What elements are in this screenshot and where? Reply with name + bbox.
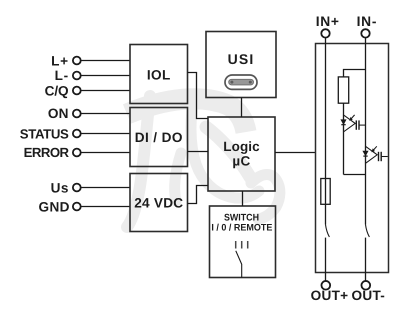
- wire Logic to output stage: [275, 152, 316, 154]
- wire Logic to SWITCH: [242, 191, 244, 206]
- svg-text:GND: GND: [39, 199, 70, 214]
- terminal STATUS: [20, 126, 81, 141]
- switch contact on IN+ line: [326, 225, 330, 237]
- photoMOS coupler 2: [363, 146, 388, 163]
- terminal IN-: [357, 14, 378, 37]
- resistor R1: [338, 77, 348, 103]
- terminal Us: [51, 180, 81, 195]
- svg-text:L+: L+: [51, 54, 69, 69]
- svg-text:IOL: IOL: [147, 68, 171, 83]
- svg-text:ON: ON: [48, 106, 69, 121]
- svg-text:USI: USI: [228, 51, 255, 67]
- terminal C/Q: [45, 84, 81, 99]
- svg-text:STATUS: STATUS: [20, 126, 69, 141]
- photoMOS coupler 1: [341, 115, 365, 132]
- switch position ticks: [236, 241, 248, 249]
- output stage outer box: [316, 44, 389, 273]
- wire STATUS to DI/DO: [81, 133, 130, 135]
- svg-text:I / 0 / REMOTE: I / 0 / REMOTE: [211, 222, 272, 233]
- block USI: [206, 32, 276, 98]
- wire ON to DI/DO: [81, 113, 130, 115]
- svg-text:µC: µC: [232, 154, 250, 169]
- wire IN- down: [365, 38, 367, 225]
- wire IN+ lower: [325, 238, 327, 282]
- terminal IN+: [316, 14, 340, 37]
- terminal L+: [51, 54, 81, 69]
- svg-text:24 VDC: 24 VDC: [134, 196, 183, 211]
- terminal OUT-: [351, 281, 385, 303]
- wire GND to 24VDC: [81, 206, 130, 208]
- svg-text:OUT+: OUT+: [311, 288, 349, 303]
- wire branch from IN- to resistor: [344, 70, 366, 77]
- svg-text:C/Q: C/Q: [45, 84, 69, 99]
- svg-text:Logic: Logic: [223, 139, 260, 154]
- svg-text:Us: Us: [51, 180, 69, 195]
- block 24VDC: [130, 174, 188, 232]
- wire USI to Logic: [241, 98, 243, 118]
- wire Us to 24VDC: [81, 187, 130, 189]
- terminal OUT+: [311, 281, 349, 303]
- block Logic uC: [208, 117, 275, 191]
- wire L+ to IOL: [81, 60, 130, 62]
- wire 24VDC to Logic: [188, 186, 209, 204]
- svg-text:IN+: IN+: [316, 14, 340, 29]
- switch contact on IN- line: [366, 225, 370, 237]
- svg-text:L-: L-: [55, 68, 69, 83]
- block DI/DO: [130, 108, 188, 167]
- wire resistor to junction: [343, 103, 345, 174]
- wire junction to IN- line: [344, 174, 366, 176]
- terminal GND: [39, 199, 81, 214]
- wire IN+ down: [325, 38, 327, 225]
- svg-text:ERROR: ERROR: [24, 145, 70, 160]
- svg-text:OUT-: OUT-: [351, 288, 385, 303]
- block IOL: [130, 45, 188, 104]
- wire C/Q to IOL: [81, 90, 130, 92]
- terminal ERROR: [24, 145, 81, 160]
- wire L- to IOL: [81, 75, 130, 77]
- block SWITCH I/0/REMOTE: [210, 206, 276, 278]
- svg-text:IN-: IN-: [357, 14, 378, 29]
- USB-C connector icon: [225, 75, 257, 89]
- terminal L-: [55, 68, 81, 83]
- svg-text:DI / DO: DI / DO: [135, 130, 183, 145]
- wire IOL to Logic: [188, 73, 209, 119]
- switch lever: [236, 251, 242, 278]
- wire DI/DO to Logic: [188, 151, 209, 153]
- wire ERROR to DI/DO: [81, 152, 130, 154]
- fuse F1: [321, 179, 330, 205]
- wire IN- lower: [365, 238, 367, 282]
- terminal ON: [48, 106, 81, 121]
